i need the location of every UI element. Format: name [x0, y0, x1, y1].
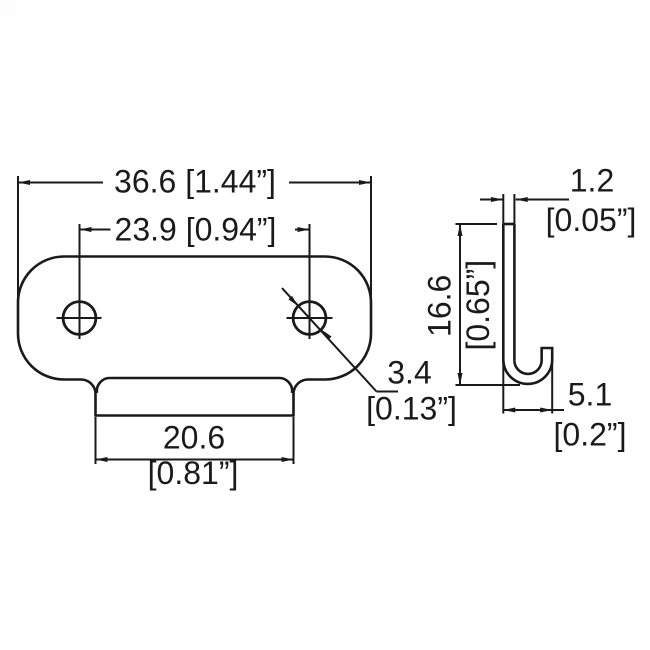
svg-text:5.1: 5.1	[568, 377, 612, 413]
dimension line 5.1	[503, 409, 564, 411]
dimension line 20.6	[96, 459, 294, 461]
side view top edge	[503, 223, 514, 226]
svg-text:16.6: 16.6	[422, 275, 458, 337]
bend fold line on tab	[97, 378, 292, 393]
dimension line 23.9	[80, 229, 111, 231]
svg-text:[0.65”]: [0.65”]	[460, 260, 496, 351]
extension lines 20.6	[95, 417, 97, 464]
svg-text:36.6 [1.44”]: 36.6 [1.44”]	[114, 164, 276, 200]
svg-text:[0.2”]: [0.2”]	[554, 417, 627, 453]
extension lines 16.6	[456, 223, 498, 225]
svg-text:1.2: 1.2	[570, 162, 614, 198]
extension line right 36.6	[370, 176, 372, 333]
hole left	[63, 302, 96, 335]
hole left crosshair	[57, 317, 102, 319]
side view strip right edge	[513, 224, 516, 360]
leader line 3.4 hole diameter	[282, 288, 377, 391]
svg-text:20.6: 20.6	[163, 420, 225, 456]
hole right	[293, 302, 326, 335]
hole right crosshair	[287, 317, 333, 319]
svg-text:23.9 [0.94”]: 23.9 [0.94”]	[115, 211, 277, 247]
hook (J profile)	[503, 348, 552, 384]
svg-text:[0.81”]: [0.81”]	[148, 455, 239, 491]
dimension line 16.6	[459, 224, 461, 385]
extension line left 36.6	[17, 176, 19, 333]
side view strip left edge	[502, 224, 505, 360]
extension line 5.1 right	[551, 360, 553, 414]
dimension line 36.6	[18, 182, 103, 184]
svg-text:[0.05”]: [0.05”]	[546, 202, 637, 238]
dimension 1.2	[480, 199, 503, 201]
svg-text:[0.13”]: [0.13”]	[366, 391, 457, 427]
bracket body outline (front view)	[18, 257, 371, 416]
svg-text:3.4: 3.4	[387, 354, 431, 390]
